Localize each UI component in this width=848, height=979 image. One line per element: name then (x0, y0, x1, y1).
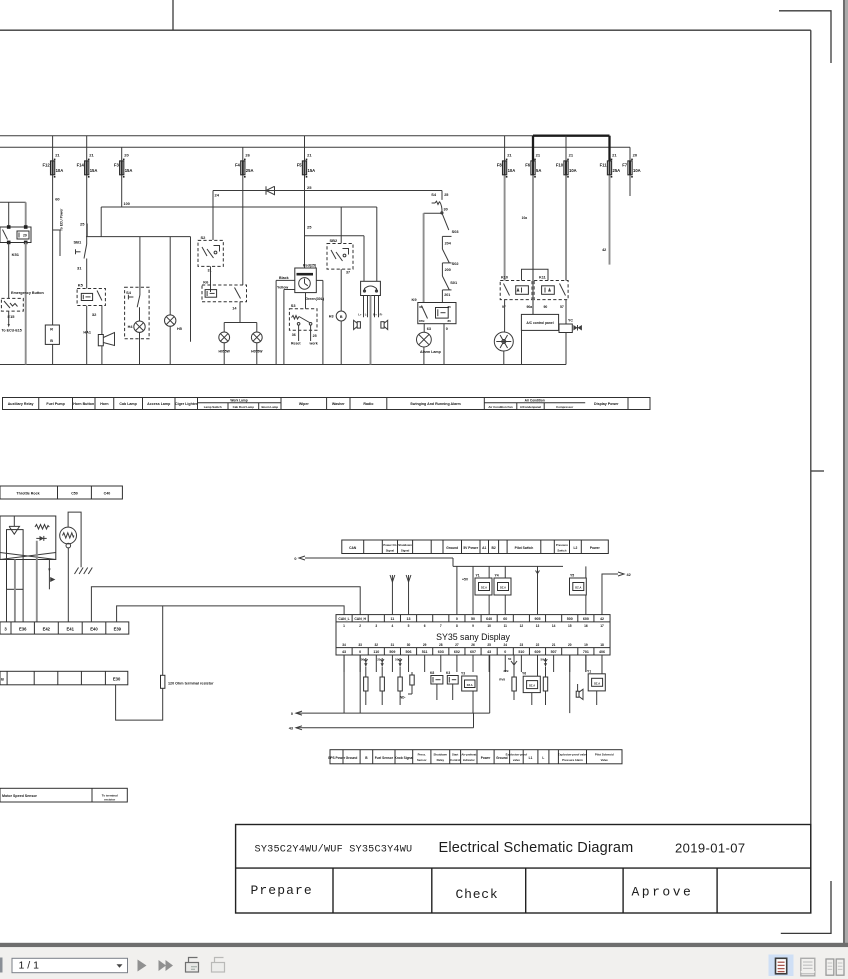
svg-text:10: 10 (487, 624, 491, 628)
statusbar previous view icon (186, 963, 199, 973)
svg-text:GPS Power: GPS Power (328, 756, 346, 760)
sensor arrow col14 (545, 658, 547, 666)
wire throttle box pins to connector (6, 589, 8, 622)
wire motor to E41 (67, 548, 69, 622)
pullup resistor R13 (399, 667, 401, 678)
relay K8 shutdown (431, 676, 443, 685)
svg-text:Explosion-proof valve: Explosion-proof valve (558, 753, 588, 757)
svg-text:18: 18 (600, 643, 604, 647)
svg-text:43: 43 (342, 650, 346, 654)
svg-text:Lamp Switch: Lamp Switch (204, 405, 222, 409)
svg-text:90a: 90a (527, 305, 533, 309)
svg-text:42: 42 (600, 617, 604, 621)
motor M2 (60, 527, 77, 544)
wire fan to rail (503, 351, 505, 365)
wire drop to radio connector (376, 207, 378, 281)
display signal table bottom (330, 750, 622, 764)
svg-text:10A: 10A (569, 168, 577, 173)
svg-text:S4: S4 (126, 290, 132, 295)
43 return rail below display (296, 727, 474, 729)
svg-text:25: 25 (313, 334, 317, 338)
svg-text:Power: Power (590, 546, 601, 550)
wire S4 feed (139, 237, 141, 295)
svg-text:Switch: Switch (557, 548, 566, 552)
svg-text:4: 4 (392, 624, 394, 628)
svg-text:22: 22 (536, 643, 540, 647)
wire H5 to rail (169, 326, 171, 364)
svg-text:33: 33 (358, 643, 362, 647)
svg-text:A/Condenpanel: A/Condenpanel (520, 405, 541, 409)
svg-text:110: 110 (373, 650, 379, 654)
svg-text:510: 510 (518, 650, 524, 654)
wire feed to relay K51 (0, 201, 26, 203)
svg-text:406: 406 (599, 650, 605, 654)
wire hour meter right lead (316, 279, 323, 281)
svg-text:1: 1 (343, 624, 345, 628)
svg-text:L-: L- (365, 313, 368, 317)
svg-text:90: 90 (544, 305, 548, 309)
svg-text:21: 21 (552, 643, 556, 647)
svg-text:37B: 37B (503, 669, 508, 673)
svg-text:10A: 10A (633, 168, 641, 173)
svg-text:DZ.A: DZ.A (467, 684, 473, 687)
svg-text:B2: B2 (491, 546, 495, 550)
svg-text:CAN: CAN (349, 546, 357, 550)
wire S01 to K9 (441, 290, 443, 303)
svg-text:Alarm Lamp: Alarm Lamp (420, 350, 442, 354)
svg-text:S2: S2 (201, 235, 207, 240)
wire ground rail (0, 364, 566, 366)
svg-text:3: 3 (375, 624, 377, 628)
wire 5V bus above display (453, 565, 563, 567)
throttle table (0, 486, 122, 499)
svg-text:50: 50 (541, 658, 545, 662)
svg-text:Yellow: Yellow (277, 285, 288, 289)
relay K5 (77, 289, 105, 306)
svg-text:Cab Roof Lamp: Cab Roof Lamp (233, 405, 255, 409)
svg-text:602: 602 (454, 650, 460, 654)
svg-text:21: 21 (536, 153, 541, 158)
svg-text:H5: H5 (177, 327, 182, 331)
svg-text:F6: F6 (525, 162, 531, 167)
wire bottom pins stub (343, 655, 345, 672)
svg-text:S3: S3 (291, 303, 297, 308)
svg-text:F5: F5 (297, 162, 303, 167)
svg-text:SB2: SB2 (330, 238, 339, 243)
svg-text:63: 63 (427, 327, 431, 331)
wire radio ground gray (370, 296, 372, 365)
wire horn to rail (101, 346, 103, 365)
svg-text:Aprove: Aprove (632, 885, 694, 900)
svg-text:0: 0 (291, 712, 293, 716)
svg-text:Pilot Solenoid: Pilot Solenoid (595, 753, 614, 757)
wire speaker leads (363, 296, 365, 318)
svg-text:100: 100 (124, 202, 130, 206)
wire SB1 to K5 (86, 259, 88, 289)
svg-text:Air Condition Fan: Air Condition Fan (488, 405, 512, 409)
wire R/B box to rail (52, 344, 54, 364)
pullup resistor R11 (365, 667, 367, 678)
svg-text:15: 15 (568, 624, 572, 628)
svg-text:Power On: Power On (383, 543, 396, 547)
svg-text:Swinging And Running Alarm: Swinging And Running Alarm (410, 402, 460, 406)
svg-text:E41: E41 (66, 626, 74, 631)
wire SB2 to indicator H3 (340, 269, 342, 311)
svg-text:11: 11 (391, 617, 395, 621)
svg-text:21: 21 (89, 153, 94, 158)
display SY35 block (336, 615, 610, 655)
svg-text:Fuel Sensor: Fuel Sensor (375, 756, 394, 760)
wire S4 to alarm relay drop (424, 212, 442, 214)
wire lamp feed 100 (101, 206, 377, 208)
solenoid Y5 (570, 578, 587, 595)
speaker right (381, 322, 384, 328)
throttle motor body (7, 530, 24, 590)
svg-text:29: 29 (23, 234, 27, 238)
wire H4 to rail (139, 332, 141, 364)
fuse F14 15A (85, 161, 89, 175)
svg-text:Ciger Lighter: Ciger Lighter (175, 402, 198, 406)
svg-text:701: 701 (583, 650, 589, 654)
svg-text:work: work (309, 342, 318, 346)
svg-text:15A: 15A (90, 168, 98, 173)
switch S3 wiper (289, 309, 317, 331)
svg-text:CAN_L: CAN_L (338, 617, 349, 621)
svg-text:K51: K51 (12, 252, 20, 257)
throttle sensor arrow (48, 560, 50, 590)
wire K9 to alarm lamp (423, 324, 425, 333)
throttle resistor (35, 525, 49, 530)
svg-text:2019-01-07: 2019-01-07 (675, 841, 746, 856)
svg-text:F10: F10 (556, 162, 564, 167)
wire hour meter to S3 (305, 293, 307, 309)
wire radio feed from F5 (305, 235, 365, 237)
svg-text:42: 42 (602, 248, 606, 252)
statusbar next page button (138, 960, 147, 972)
wire hour meter black lead (276, 279, 295, 281)
fuse F12 10A (51, 161, 55, 175)
gnd return rail below display (296, 712, 490, 714)
wire K10 to fan (504, 300, 506, 333)
resistor unit R/B box (45, 325, 59, 344)
wire compressor to rail (565, 333, 567, 365)
svg-text:609: 609 (535, 650, 541, 654)
wire K5 coil to rail (86, 306, 88, 365)
solenoid Y6 (523, 676, 540, 692)
wire panel to rail (521, 330, 523, 364)
svg-text:K9: K9 (412, 297, 418, 302)
wire K51 to emergency button (8, 243, 10, 299)
svg-text:L1: L1 (529, 756, 533, 760)
svg-text:B: B (340, 315, 343, 319)
wire pin13 pilot switch (537, 566, 539, 614)
svg-text:Y4: Y4 (495, 574, 499, 578)
wire radio feeds (363, 236, 365, 282)
svg-text:15A: 15A (125, 168, 133, 173)
svg-text:34: 34 (342, 643, 346, 647)
svg-text:Control: Control (450, 758, 460, 762)
wire motor case to ground (68, 512, 81, 567)
radio connector (361, 281, 381, 295)
buzzer below display (576, 691, 579, 697)
wire fuse drop F14 (86, 136, 88, 161)
wire H3 to rail (340, 321, 342, 365)
svg-text:CAN_H: CAN_H (354, 617, 366, 621)
wire throttle feed left (36, 541, 38, 622)
svg-text:603: 603 (438, 650, 444, 654)
svg-text:25: 25 (80, 222, 85, 227)
svg-text:Auxiliary Relay: Auxiliary Relay (8, 402, 34, 406)
statusbar leftmost icon sliver (0, 958, 3, 973)
svg-text:Relay: Relay (437, 758, 445, 762)
wire to ECU label (8, 311, 10, 324)
pullup resistor R12 (381, 667, 383, 678)
function table air condition subcells (484, 402, 585, 404)
wire CAN high E40 to display pin2 (91, 587, 360, 622)
svg-text:0: 0 (294, 557, 296, 561)
svg-text:60: 60 (55, 197, 60, 202)
svg-text:RV8: RV8 (499, 678, 505, 682)
svg-text:19: 19 (584, 643, 588, 647)
fuse F4 25A (241, 161, 245, 175)
svg-text:indicator: indicator (463, 758, 476, 762)
wire alarm lamp to rail (423, 347, 425, 365)
svg-text:42: 42 (627, 573, 631, 577)
speaker left (357, 322, 360, 328)
fuse F11 25A (607, 161, 611, 175)
svg-text:Black: Black (279, 276, 289, 280)
diode VD1 on lamp-switch line (213, 190, 442, 192)
svg-text:Air-preheat: Air-preheat (461, 753, 476, 757)
wire K11 to compressor clutch (565, 300, 567, 324)
svg-text:87B: 87B (419, 319, 425, 323)
to-ECU power stub (53, 229, 60, 231)
svg-text:23: 23 (520, 643, 524, 647)
svg-text:SY35C2Y4WU/WUF SY35C3Y4WU: SY35C2Y4WU/WUF SY35C3Y4WU (255, 844, 413, 856)
wire hour meter yellow lead (284, 289, 295, 291)
svg-text:DZ.A: DZ.A (500, 586, 506, 590)
svg-text:506: 506 (406, 650, 412, 654)
sheet frame top border (0, 29, 811, 31)
svg-text:Electrical Schematic Diagram: Electrical Schematic Diagram (439, 840, 634, 856)
ground symbol (75, 568, 79, 575)
wire fuse drop F7 (629, 147, 631, 161)
svg-text:200: 200 (445, 268, 451, 272)
svg-text:25: 25 (444, 193, 448, 197)
svg-text:K6: K6 (203, 279, 209, 284)
viewmode single page icon active (769, 955, 794, 977)
svg-text:YC: YC (568, 319, 573, 323)
svg-text:E40: E40 (90, 626, 98, 631)
svg-text:Air Condition: Air Condition (525, 399, 545, 403)
svg-text:Y5: Y5 (570, 574, 574, 578)
svg-text:24: 24 (503, 643, 507, 647)
lamp boom H055W (251, 332, 262, 343)
svg-text:24: 24 (215, 193, 220, 198)
svg-text:F7: F7 (622, 162, 628, 167)
svg-text:0: 0 (446, 327, 448, 331)
svg-text:Valve: Valve (601, 758, 609, 762)
svg-text:F12: F12 (42, 162, 50, 167)
function table work lamp subcells (198, 402, 282, 404)
svg-text:+5V: +5V (462, 578, 469, 582)
speed sensor label box (0, 788, 127, 802)
statusbar next view icon disabled (212, 963, 225, 973)
svg-text:17: 17 (600, 624, 604, 628)
svg-text:To ECU Power: To ECU Power (60, 208, 64, 231)
svg-text:R: R (50, 328, 53, 332)
switch S2 (198, 240, 223, 266)
svg-text:85: 85 (448, 305, 452, 309)
viewmode facing icon (826, 959, 834, 975)
sheet frame fold line top-left (172, 0, 174, 30)
svg-text:507: 507 (551, 650, 557, 654)
wire pin9 5V (472, 566, 474, 614)
svg-text:Sensor: Sensor (417, 758, 427, 762)
wire fuse drop F11 thick (608, 136, 610, 161)
svg-text:K10: K10 (501, 276, 508, 280)
solenoid Y3 (462, 676, 477, 691)
condenser fan M1 (494, 332, 513, 351)
svg-text:L+: L+ (358, 313, 362, 317)
throttle diode (36, 537, 46, 539)
statusbar page combo box (12, 958, 128, 972)
svg-text:DZ.A: DZ.A (575, 586, 581, 590)
solenoid Y2 pilot (588, 674, 605, 691)
svg-text:L: L (542, 756, 544, 760)
fuse F7 10A (628, 161, 632, 175)
svg-text:7: 7 (440, 624, 442, 628)
fuse F8 10A (503, 161, 507, 175)
svg-text:K11: K11 (539, 276, 546, 280)
svg-text:86: 86 (448, 319, 452, 323)
svg-text:DZ.A: DZ.A (481, 586, 487, 590)
svg-text:Motor Speed Sensor: Motor Speed Sensor (2, 794, 38, 798)
svg-text:Display Power: Display Power (594, 402, 619, 406)
svg-text:Pressure Alarm: Pressure Alarm (562, 758, 583, 762)
svg-text:204: 204 (445, 241, 452, 245)
lamp H5 access lamp (165, 315, 176, 326)
wire fuse drop F8 (504, 136, 506, 161)
svg-text:5: 5 (408, 624, 410, 628)
svg-text:F14: F14 (77, 162, 85, 167)
a/c control panel (521, 314, 558, 330)
svg-text:57: 57 (560, 305, 564, 309)
svg-text:F3: F3 (114, 162, 120, 167)
svg-text:50: 50 (395, 658, 399, 662)
svg-text:Radio: Radio (363, 402, 374, 406)
hour meter P1 (295, 268, 317, 293)
wire fuse drop F3 (121, 147, 123, 161)
svg-text:S02: S02 (452, 261, 460, 266)
svg-text:31: 31 (391, 643, 395, 647)
svg-text:201: 201 (444, 293, 450, 297)
svg-text:10a: 10a (522, 216, 528, 220)
svg-text:B: B (50, 339, 53, 343)
svg-text:Power: Power (481, 756, 491, 760)
svg-text:640: 640 (486, 617, 492, 621)
wire S3 work stub (310, 325, 312, 341)
svg-text:S01: S01 (450, 280, 458, 285)
wire bus ACC (second) (0, 146, 630, 148)
svg-text:S4: S4 (431, 192, 437, 197)
display signal table top (342, 540, 609, 554)
svg-text:Shutdown: Shutdown (398, 543, 412, 547)
svg-text:30: 30 (419, 305, 423, 309)
switch SB2 (327, 244, 353, 270)
wire S3 reset stub (298, 325, 300, 341)
svg-text:Cab Lamp: Cab Lamp (119, 402, 137, 406)
resistor R14 (545, 667, 547, 678)
svg-text:Green(30L): Green(30L) (305, 297, 325, 301)
svg-text:607: 607 (470, 650, 476, 654)
svg-text:1 / 1: 1 / 1 (19, 960, 40, 972)
svg-text:Signal: Signal (401, 548, 410, 552)
relay K10 a/c fan (500, 281, 532, 300)
svg-text:25: 25 (307, 225, 312, 230)
svg-text:5A: 5A (536, 168, 541, 173)
svg-text:F4: F4 (235, 162, 241, 167)
svg-text:500: 500 (567, 617, 573, 621)
wire gray feed K51 right (25, 202, 27, 227)
svg-text:Access Lamp: Access Lamp (147, 402, 171, 406)
svg-text:509: 509 (389, 650, 395, 654)
svg-text:C50: C50 (71, 491, 78, 495)
wire lamp switch feed 25 (86, 236, 191, 238)
wire ciger lighter stub (190, 237, 192, 342)
svg-text:S03: S03 (452, 229, 460, 234)
sensor arrows below display (365, 658, 367, 666)
terminal resistor 120 Ohm (162, 606, 164, 675)
svg-text:To ECU-E15: To ECU-E15 (2, 329, 22, 333)
svg-text:10A: 10A (56, 168, 64, 173)
svg-text:L2: L2 (573, 546, 577, 550)
svg-text:Start: Start (452, 753, 458, 757)
svg-text:32: 32 (92, 312, 97, 317)
svg-text:SY35 sany Display: SY35 sany Display (436, 632, 510, 642)
svg-text:30: 30 (444, 208, 448, 212)
svg-text:Fuel Pump: Fuel Pump (46, 402, 65, 406)
wire pin17 out 42 (602, 574, 618, 615)
svg-text:Shutdown: Shutdown (434, 753, 448, 757)
svg-text:Wiper: Wiper (299, 402, 310, 406)
svg-text:Ground: Ground (446, 546, 458, 550)
wire fuse drop F5 (304, 136, 306, 161)
corner mark top-right (779, 11, 831, 63)
throttle triangle (9, 526, 19, 534)
svg-text:10A: 10A (508, 168, 516, 173)
svg-text:50: 50 (508, 657, 512, 661)
svg-text:27: 27 (455, 643, 459, 647)
svg-text:13: 13 (536, 624, 540, 628)
svg-text:21: 21 (307, 153, 312, 158)
alarm lamp H9 (417, 332, 432, 347)
solenoid Y1 (475, 578, 492, 595)
svg-text:16: 16 (584, 624, 588, 628)
antenna arrow pin5 (408, 582, 410, 615)
svg-text:Horn: Horn (100, 402, 108, 406)
wire relay bridge (522, 269, 549, 280)
connector row E30 (0, 671, 128, 685)
svg-text:E42: E42 (43, 626, 51, 631)
wire roof lamp to rail (223, 343, 225, 365)
svg-text:25A: 25A (246, 168, 254, 173)
wire bus thick segment (533, 135, 610, 137)
svg-text:21: 21 (55, 153, 60, 158)
svg-text:R+: R+ (373, 313, 377, 317)
svg-text:Pressure: Pressure (556, 543, 568, 547)
svg-text:DZ.A: DZ.A (594, 681, 600, 685)
